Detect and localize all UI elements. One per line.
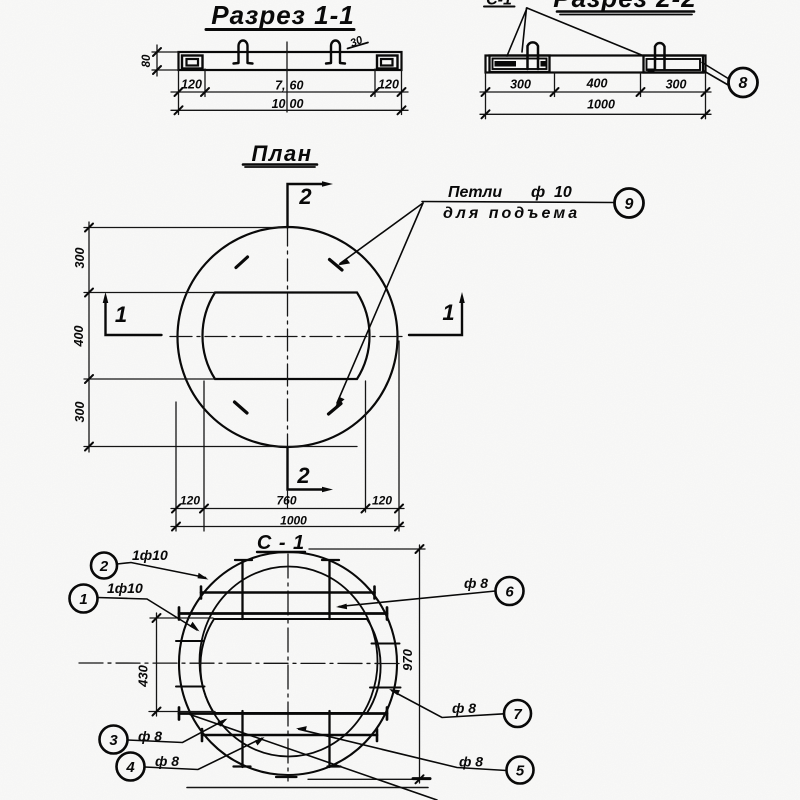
- svg-text:ф 8: ф 8: [452, 700, 476, 716]
- leader from C-1 label to left loop: [522, 8, 527, 52]
- centerline continuation below marker 2: [287, 490, 289, 509]
- svg-text:300: 300: [73, 402, 87, 423]
- svg-text:9: 9: [625, 196, 634, 213]
- svg-text:2: 2: [296, 463, 310, 488]
- horizontal bar B1 with end ticks: [201, 587, 375, 599]
- right ring rung upper: [372, 643, 400, 645]
- vertical centerline (plan, dash-dot): [287, 224, 289, 450]
- extension lines (section 2-2 dims): [486, 73, 706, 119]
- svg-text:400: 400: [586, 77, 608, 91]
- svg-text:3: 3: [109, 732, 118, 749]
- label C-1 (cut off, above section 2-2): [484, 0, 515, 9]
- svg-text:120: 120: [372, 494, 392, 508]
- vertical centerline (C-1): [287, 554, 289, 781]
- horizontal centerline (plan, dash-dot): [170, 336, 405, 338]
- callout circle 1 with label 1ф10: [70, 585, 98, 613]
- left dimension line 300-400-300 (plan): [88, 222, 90, 452]
- leader line to top-right loop with arrow: [340, 203, 423, 264]
- svg-text:Разрез 1-1: Разрез 1-1: [211, 0, 354, 30]
- leader from circle 3: [128, 720, 226, 743]
- leader from circle 7: [392, 691, 505, 718]
- svg-text:120: 120: [180, 494, 200, 508]
- dimension line 120-760-120 (section 1-1): [171, 91, 408, 93]
- bottom dimension line 1000 (plan): [171, 526, 404, 528]
- lifting loop left (section 1-1): [234, 41, 253, 64]
- lifting loop on left plate (2-2): [528, 42, 539, 69]
- svg-text:ф 8: ф 8: [155, 753, 179, 769]
- leader from circle 1: [98, 598, 198, 631]
- slab outline section 2-2: [486, 56, 706, 73]
- embedded plate right (section 2-2): [644, 56, 704, 73]
- dimension line 1000 (2-2): [480, 113, 711, 115]
- svg-text:1000: 1000: [280, 514, 307, 528]
- leader from C-1 label to right plate: [527, 8, 644, 56]
- dimension 970 (C-1): [308, 545, 427, 783]
- leader from circle 8 to plate (upper): [702, 63, 729, 80]
- svg-text:ф 8: ф 8: [464, 575, 488, 591]
- embedded plate left (section 2-2): [490, 56, 550, 73]
- svg-text:4: 4: [125, 759, 135, 776]
- lifting loop on right plate (2-2): [655, 43, 665, 69]
- title Разрез 1-1: [206, 0, 355, 30]
- callout circle 6 with label ф8: [496, 577, 524, 605]
- slab outline section 1-1: [179, 52, 402, 70]
- embedded channel right (section 1-1): [377, 56, 398, 69]
- svg-text:8: 8: [739, 75, 748, 92]
- lifting loop right (section 1-1): [326, 41, 345, 64]
- title С-1: [257, 532, 305, 554]
- svg-text:300: 300: [73, 248, 87, 269]
- thick tick at 970 bottom: [413, 777, 430, 780]
- title Разрез 2-2 (cut off at top): [553, 0, 696, 15]
- outer circle (C-1): [179, 552, 397, 775]
- leader line to bottom-right loop with arrow: [337, 203, 423, 403]
- svg-text:7,: 7,: [275, 79, 285, 93]
- inner ring bar circle (C-1): [200, 567, 378, 757]
- left ring rung upper: [176, 640, 204, 642]
- callout circle 4 with label ф8: [117, 753, 145, 781]
- vertical bar V1 (left) with end ticks: [234, 560, 253, 767]
- svg-text:1000: 1000: [587, 98, 615, 112]
- callout circle 3 with label ф8: [100, 726, 128, 754]
- opening outline (C-1 barrel): [200, 619, 380, 713]
- svg-text:400: 400: [72, 326, 86, 348]
- anchor bar fill in right plate: [648, 69, 655, 73]
- svg-text:300: 300: [510, 78, 531, 92]
- svg-text:10: 10: [272, 97, 286, 111]
- horizontal bar B4 with end ticks: [202, 729, 377, 741]
- svg-text:60: 60: [290, 79, 304, 93]
- left ring rung lower: [176, 686, 205, 688]
- horizontal bar B2 with end ticks: [179, 608, 387, 620]
- svg-text:430: 430: [136, 664, 151, 687]
- svg-text:2: 2: [99, 558, 109, 575]
- anchor bar fills in left plate: [495, 61, 517, 67]
- leader from C-1 label to left plate: [507, 8, 527, 56]
- leader horizontal line to circle 9: [422, 202, 615, 203]
- svg-text:970: 970: [400, 648, 415, 670]
- small mark 30 (section 1-1): [348, 34, 369, 50]
- height dimension 80 (section 1-1): [152, 45, 179, 76]
- callout circle 2 with label 1ф10: [91, 553, 117, 579]
- horizontal bar B3 with end ticks: [179, 708, 387, 720]
- leader from circle 6: [339, 591, 496, 607]
- svg-text:ф: ф: [531, 184, 545, 201]
- svg-text:760: 760: [276, 494, 296, 508]
- loop dash bottom-left (plan): [235, 402, 248, 413]
- loop dash top-right (plan): [330, 260, 343, 271]
- svg-text:1: 1: [115, 302, 127, 327]
- horizontal centerline (C-1): [79, 662, 400, 665]
- svg-text:1: 1: [79, 591, 87, 608]
- svg-text:1ф10: 1ф10: [107, 580, 143, 596]
- svg-text:10: 10: [554, 184, 572, 201]
- centerline section 1-1: [286, 42, 288, 112]
- dimension line 1000 (section 1-1): [171, 109, 408, 111]
- leader from circle 2: [117, 563, 206, 578]
- svg-text:80: 80: [141, 54, 153, 67]
- callout circle 8: [729, 68, 758, 97]
- svg-text:300: 300: [666, 78, 687, 92]
- section marker 2 bottom: line and arrow: [288, 448, 327, 490]
- long bottom line (cropped feature): [187, 787, 428, 789]
- section marker 1 right: line and arrow: [409, 299, 462, 335]
- svg-text:120: 120: [181, 78, 202, 92]
- bottom dimension line 120-760-120 (plan): [171, 508, 404, 510]
- leader from circle 4: [145, 738, 263, 769]
- callout circle 5 with label ф8: [507, 757, 534, 784]
- section marker 1 left: line and arrow: [106, 299, 162, 335]
- callout circle 7 with label ф8: [504, 700, 531, 727]
- svg-text:1: 1: [442, 300, 454, 325]
- svg-text:7: 7: [513, 706, 522, 723]
- loop dash bottom-right (plan): [329, 404, 342, 415]
- dimension line 300-400-300 (2-2): [480, 91, 711, 93]
- svg-text:План: План: [251, 141, 312, 166]
- callout circle 9: [615, 189, 644, 218]
- svg-text:С - 1: С - 1: [257, 532, 305, 554]
- vertical bar V2 (right) with end ticks: [322, 560, 341, 767]
- loop dash top-left (plan): [236, 257, 248, 268]
- leader from circle 5: [299, 729, 507, 770]
- svg-text:Петли: Петли: [448, 184, 502, 201]
- opening outline (plan, barrel shape): [202, 293, 369, 380]
- svg-text:1ф10: 1ф10: [132, 547, 168, 563]
- extension lines (section 1-1 dims): [179, 69, 402, 115]
- centerline bottom tick: [276, 776, 297, 778]
- right ring rung lower: [370, 687, 401, 689]
- svg-text:120: 120: [378, 78, 399, 92]
- svg-text:6: 6: [505, 584, 514, 601]
- bottom extension lines (plan): [176, 341, 399, 531]
- svg-text:для подъема: для подъема: [443, 205, 580, 222]
- svg-text:2: 2: [298, 184, 312, 209]
- svg-text:5: 5: [516, 763, 525, 780]
- title План: [243, 141, 317, 167]
- embedded channel left (section 1-1): [182, 56, 203, 69]
- svg-text:00: 00: [290, 97, 304, 111]
- dimension 430 (C-1): [149, 613, 215, 716]
- leader from circle 8 to plate (lower): [704, 71, 729, 86]
- left extension lines (plan): [84, 228, 357, 447]
- stray leader to cropped callout (bottom right): [190, 715, 437, 800]
- slab circle (plan): [178, 227, 398, 447]
- section marker 2 top: line and arrow: [288, 184, 327, 228]
